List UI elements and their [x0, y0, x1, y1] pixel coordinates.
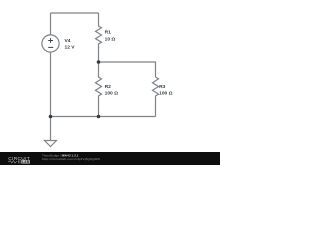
- svg-text:http://circuitlab.com/c4phq5g0: http://circuitlab.com/c4phq5g0g3k5: [42, 157, 100, 161]
- svg-text:10 Ω: 10 Ω: [105, 36, 116, 42]
- svg-text:LAB: LAB: [22, 160, 30, 164]
- svg-text:R2: R2: [105, 84, 112, 90]
- svg-text:12 V: 12 V: [65, 45, 76, 51]
- svg-text:V4: V4: [65, 38, 71, 44]
- svg-text:R1: R1: [105, 29, 112, 35]
- svg-text:R3: R3: [159, 84, 166, 90]
- svg-text:100 Ω: 100 Ω: [159, 91, 173, 97]
- svg-text:100 Ω: 100 Ω: [105, 91, 119, 97]
